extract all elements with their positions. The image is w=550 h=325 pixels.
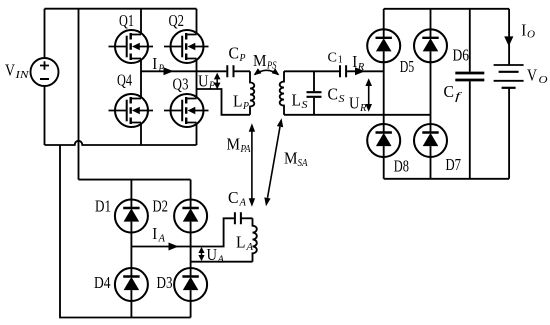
inductor LA [253, 218, 257, 261]
svg-text:M: M [227, 135, 241, 154]
wire lower bridge top rail [79, 179, 191, 181]
coupling arrow MSA [264, 118, 283, 206]
arrow IO [504, 36, 513, 46]
label CS [328, 85, 346, 106]
label IA [152, 224, 165, 245]
label C1 [328, 50, 343, 66]
svg-text:I: I [152, 224, 157, 243]
svg-text:Q2: Q2 [169, 11, 185, 30]
wire right leg middle (Q2-Q3) [196, 59, 198, 99]
svg-text:P: P [242, 100, 249, 112]
svg-text:1: 1 [338, 55, 343, 66]
svg-text:A: A [239, 197, 247, 209]
svg-text:PS: PS [266, 60, 277, 72]
wire D1 top lead [130, 180, 132, 208]
svg-text:Q1: Q1 [119, 11, 134, 30]
label IR [352, 52, 364, 73]
label UR [349, 94, 367, 115]
wire Cf bottom lead [469, 81, 471, 178]
capacitor CP [227, 65, 233, 77]
label UA [207, 245, 225, 266]
svg-text:R: R [357, 61, 365, 73]
wire D5-D8 leg [383, 51, 385, 132]
wire ground return run [60, 145, 191, 318]
svg-text:P: P [239, 52, 246, 64]
wire secondary bottom [284, 114, 431, 116]
svg-text:L: L [233, 92, 243, 111]
svg-text:A: A [217, 254, 225, 266]
wire right leg lower (Q3 source) [196, 123, 198, 146]
wire D1-D4 leg [130, 222, 132, 277]
svg-text:PA: PA [240, 143, 251, 155]
wire D3 bottom lead [190, 290, 192, 317]
svg-text:M: M [284, 149, 298, 168]
wire VIN top lead [44, 9, 46, 58]
svg-text:L: L [292, 91, 302, 110]
wire CP to LP top [234, 70, 250, 72]
coupling arrow MPA [249, 123, 255, 206]
wire CS branch top [313, 71, 315, 91]
arrow IR [355, 67, 365, 75]
label CP [229, 44, 246, 65]
wire left feed line [78, 9, 80, 180]
svg-text:D4: D4 [94, 273, 111, 292]
coupling arrow MPS [254, 68, 280, 75]
svg-text:R: R [359, 102, 367, 114]
arrow IP [164, 67, 174, 75]
wire left leg upper (Q1 drain) [140, 9, 142, 35]
wire LA bottom return [191, 261, 253, 263]
svg-text:I: I [521, 20, 526, 39]
diode D7 [414, 124, 447, 157]
wire battery top lead [508, 9, 510, 65]
svg-text:S: S [302, 99, 309, 111]
wire IA output to CA [131, 218, 234, 246]
capacitor CA [235, 212, 241, 224]
diode D6 [414, 29, 447, 62]
svg-text:U: U [198, 72, 209, 91]
capacitor C1 [340, 65, 346, 77]
svg-text:D7: D7 [446, 155, 462, 174]
svg-text:U: U [349, 94, 360, 113]
wire CA to LA top [242, 217, 253, 219]
svg-text:C: C [228, 188, 239, 207]
svg-text:Q3: Q3 [173, 75, 189, 94]
svg-text:I: I [152, 54, 157, 73]
wire battery bottom lead [508, 88, 510, 179]
svg-text:C: C [328, 85, 339, 104]
transistor Q2 [164, 30, 209, 63]
svg-text:P: P [158, 63, 165, 75]
diode D1 [115, 200, 148, 233]
svg-text:D3: D3 [157, 273, 173, 292]
wire D4 bottom lead [130, 290, 132, 317]
arrow UA [198, 247, 204, 261]
wire IP output to CP [141, 70, 226, 72]
wire D2-D3 leg [190, 222, 192, 277]
wire left leg middle (Q1-Q4) [140, 59, 142, 99]
svg-text:V: V [5, 61, 15, 80]
svg-text:SA: SA [298, 157, 308, 169]
wire VIN bottom lead [44, 86, 46, 145]
diode D5 [367, 29, 400, 62]
label VIN [5, 61, 29, 82]
label MSA [284, 149, 308, 170]
label MPS [253, 51, 277, 72]
svg-text:O: O [527, 29, 535, 41]
label CA [228, 188, 246, 209]
wire D2 top lead [190, 180, 192, 208]
svg-text:f: f [455, 91, 463, 103]
svg-text:I: I [352, 52, 357, 71]
label IP [152, 54, 164, 75]
wire D7 bottom lead [430, 146, 432, 179]
wire D6-D7 leg [430, 51, 432, 132]
wire D8 bottom lead [383, 146, 385, 179]
label LS [292, 91, 309, 112]
svg-text:D2: D2 [153, 197, 169, 216]
label MPA [227, 135, 251, 155]
svg-text:C: C [328, 50, 338, 65]
transistor Q1 [109, 30, 154, 63]
label UP [198, 72, 215, 92]
wire CS branch bottom [313, 98, 315, 115]
svg-text:O: O [539, 74, 548, 86]
wire UP return loop [197, 89, 251, 115]
arrow IA [169, 243, 179, 251]
wire D5 top lead [383, 9, 385, 38]
svg-text:D1: D1 [95, 197, 111, 216]
svg-text:V: V [527, 66, 537, 85]
wire D6 top lead [430, 9, 432, 38]
svg-text:L: L [236, 233, 246, 252]
diode D2 [174, 200, 207, 233]
transistor Q3 [164, 94, 209, 127]
wire Cf top lead [469, 9, 471, 72]
wire C1 to rectifier [347, 70, 384, 72]
svg-text:A: A [246, 241, 254, 253]
svg-text:IN: IN [14, 69, 29, 81]
wire bottom rail with hop over feed line [45, 141, 197, 145]
voltage source VIN [31, 58, 59, 86]
svg-text:C: C [229, 44, 240, 63]
svg-text:Q4: Q4 [117, 70, 132, 89]
svg-text:U: U [207, 245, 218, 264]
diode D4 [115, 268, 148, 301]
svg-text:P: P [208, 80, 215, 92]
label LP [233, 92, 249, 113]
svg-text:C: C [444, 82, 455, 101]
wire right leg upper (Q2 drain) [196, 9, 198, 35]
svg-text:M: M [253, 51, 267, 70]
svg-text:D5: D5 [400, 57, 415, 76]
diode D3 [174, 268, 207, 301]
inductor LS [280, 71, 284, 115]
label VO [527, 66, 548, 87]
wire LS top to C1 [284, 70, 339, 72]
label Cf [444, 82, 464, 103]
transistor Q4 [109, 94, 154, 127]
svg-text:D8: D8 [394, 157, 409, 176]
inductor LP [250, 71, 254, 115]
svg-text:A: A [158, 232, 166, 244]
battery VO [494, 65, 524, 88]
wire rectifier bottom rail [384, 178, 509, 180]
capacitor Cf [455, 73, 484, 80]
arrow UP [214, 73, 221, 90]
wire top rail [45, 8, 197, 10]
wire left leg lower (Q4 source) [140, 123, 142, 146]
svg-text:S: S [339, 93, 346, 105]
arrow UR [365, 78, 372, 111]
diode D8 [367, 124, 400, 157]
capacitor CS [307, 92, 322, 97]
svg-text:D6: D6 [453, 46, 470, 65]
wire rectifier top rail [384, 8, 509, 10]
label LA [236, 233, 253, 254]
label IO [521, 20, 535, 40]
